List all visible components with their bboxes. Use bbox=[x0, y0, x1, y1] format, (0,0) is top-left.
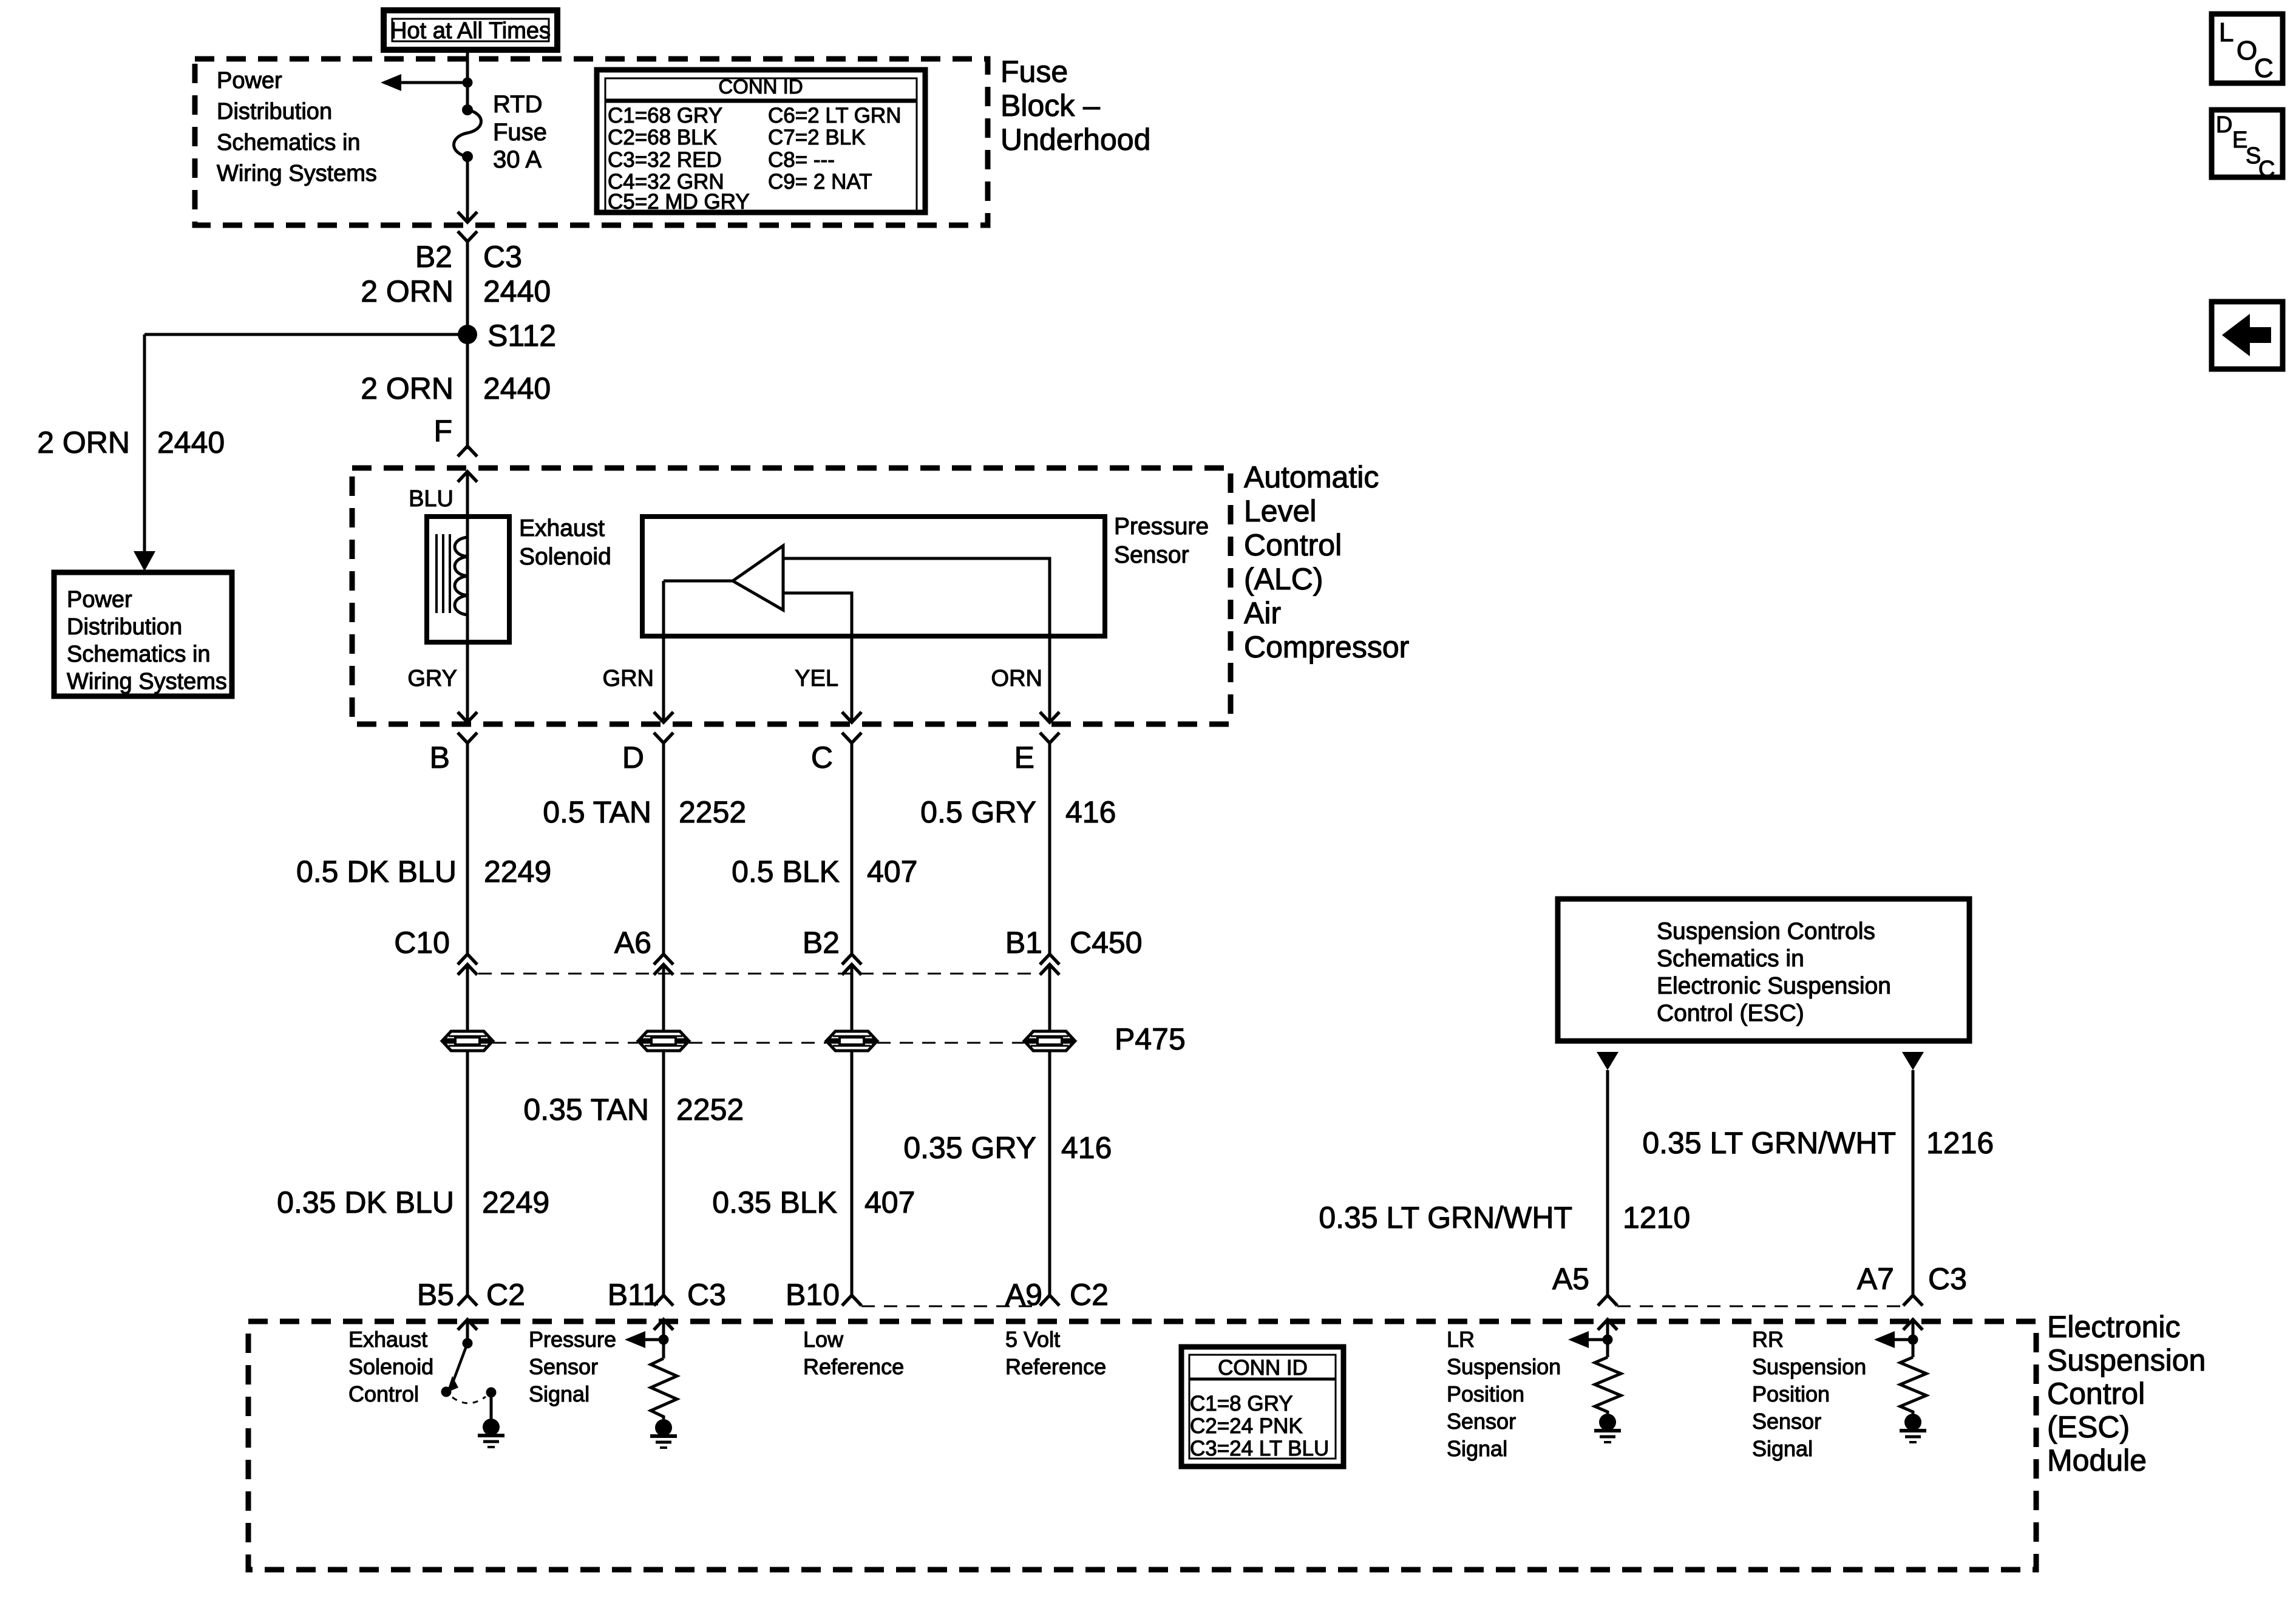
svg-text:ORN: ORN bbox=[991, 666, 1042, 691]
svg-text:Suspension Controls: Suspension Controls bbox=[1657, 918, 1875, 944]
svg-text:C6=2 LT GRN: C6=2 LT GRN bbox=[768, 104, 902, 127]
svg-text:C: C bbox=[811, 741, 833, 775]
svg-text:B11: B11 bbox=[608, 1278, 659, 1312]
svg-text:0.5 TAN: 0.5 TAN bbox=[543, 795, 651, 829]
svg-text:C3: C3 bbox=[1928, 1262, 1967, 1296]
svg-text:C2=24 PNK: C2=24 PNK bbox=[1190, 1414, 1303, 1438]
svg-text:A5: A5 bbox=[1552, 1262, 1589, 1296]
svg-text:(ESC): (ESC) bbox=[2047, 1410, 2130, 1444]
svg-text:Schematics in: Schematics in bbox=[67, 642, 211, 667]
svg-text:Sensor: Sensor bbox=[1114, 542, 1189, 568]
svg-text:0.5 GRY: 0.5 GRY bbox=[920, 795, 1036, 829]
svg-text:B: B bbox=[430, 741, 450, 775]
svg-text:407: 407 bbox=[864, 1185, 915, 1219]
svg-text:0.35 LT GRN/WHT: 0.35 LT GRN/WHT bbox=[1642, 1126, 1896, 1160]
svg-text:1210: 1210 bbox=[1623, 1201, 1690, 1235]
svg-text:2249: 2249 bbox=[482, 1185, 549, 1219]
svg-text:Suspension: Suspension bbox=[1752, 1354, 1866, 1379]
svg-text:RTD: RTD bbox=[493, 91, 542, 118]
svg-text:Fuse: Fuse bbox=[493, 119, 547, 146]
svg-text:(ALC): (ALC) bbox=[1244, 562, 1323, 596]
svg-text:Wiring Systems: Wiring Systems bbox=[67, 669, 227, 694]
svg-text:BLU: BLU bbox=[409, 486, 453, 512]
svg-text:GRN: GRN bbox=[603, 666, 654, 691]
svg-text:B1: B1 bbox=[1005, 926, 1042, 960]
svg-text:30 A: 30 A bbox=[493, 146, 542, 173]
svg-text:Electronic Suspension: Electronic Suspension bbox=[1657, 973, 1891, 999]
svg-text:2 ORN: 2 ORN bbox=[361, 371, 453, 405]
svg-text:D: D bbox=[622, 741, 644, 775]
svg-text:Module: Module bbox=[2047, 1443, 2147, 1477]
svg-text:2252: 2252 bbox=[676, 1093, 744, 1127]
svg-text:Electronic: Electronic bbox=[2047, 1310, 2181, 1344]
svg-text:Control: Control bbox=[2047, 1377, 2145, 1411]
svg-text:Power: Power bbox=[217, 68, 282, 93]
svg-text:0.5 BLK: 0.5 BLK bbox=[732, 855, 840, 889]
svg-text:A7: A7 bbox=[1857, 1262, 1894, 1296]
svg-text:Control: Control bbox=[1244, 528, 1342, 562]
svg-text:0.35 BLK: 0.35 BLK bbox=[712, 1185, 837, 1219]
svg-text:C3: C3 bbox=[483, 240, 522, 274]
svg-text:Hot at All Times: Hot at All Times bbox=[390, 18, 551, 44]
svg-text:0.35 GRY: 0.35 GRY bbox=[903, 1131, 1036, 1165]
svg-text:P475: P475 bbox=[1115, 1022, 1186, 1056]
svg-text:L: L bbox=[2219, 18, 2233, 47]
svg-text:C2: C2 bbox=[486, 1278, 525, 1312]
svg-text:Sensor: Sensor bbox=[1752, 1409, 1821, 1434]
svg-text:Position: Position bbox=[1752, 1381, 1830, 1406]
svg-text:Control (ESC): Control (ESC) bbox=[1657, 1000, 1804, 1026]
svg-text:C3=32 RED: C3=32 RED bbox=[608, 148, 722, 172]
svg-text:Reference: Reference bbox=[803, 1354, 904, 1379]
svg-text:C450: C450 bbox=[1070, 926, 1143, 960]
svg-text:C: C bbox=[2254, 53, 2274, 83]
svg-text:Pressure: Pressure bbox=[529, 1327, 616, 1352]
svg-text:5 Volt: 5 Volt bbox=[1005, 1327, 1060, 1352]
svg-text:0.5 DK BLU: 0.5 DK BLU bbox=[296, 855, 457, 889]
svg-text:Distribution: Distribution bbox=[217, 99, 332, 124]
svg-text:Solenoid: Solenoid bbox=[348, 1354, 433, 1379]
svg-text:Sensor: Sensor bbox=[1447, 1409, 1516, 1434]
svg-text:C5=2 MD GRY: C5=2 MD GRY bbox=[608, 190, 750, 214]
svg-text:C10: C10 bbox=[394, 926, 450, 960]
svg-text:2 ORN: 2 ORN bbox=[361, 274, 453, 308]
svg-text:Pressure: Pressure bbox=[1114, 514, 1209, 540]
svg-text:Wiring Systems: Wiring Systems bbox=[217, 161, 377, 186]
svg-text:B2: B2 bbox=[803, 926, 840, 960]
svg-text:RR: RR bbox=[1752, 1327, 1784, 1352]
svg-text:0.35 LT GRN/WHT: 0.35 LT GRN/WHT bbox=[1319, 1201, 1572, 1235]
svg-text:LR: LR bbox=[1447, 1327, 1475, 1352]
svg-text:Level: Level bbox=[1244, 494, 1317, 528]
svg-text:B2: B2 bbox=[415, 240, 452, 274]
svg-text:CONN ID: CONN ID bbox=[718, 75, 803, 98]
svg-text:C1=68 GRY: C1=68 GRY bbox=[608, 104, 722, 127]
svg-text:CONN ID: CONN ID bbox=[1218, 1356, 1308, 1380]
svg-text:C8= ---: C8= --- bbox=[768, 148, 835, 172]
svg-text:Position: Position bbox=[1447, 1381, 1524, 1406]
svg-text:Schematics in: Schematics in bbox=[217, 130, 361, 155]
svg-text:Exhaust: Exhaust bbox=[348, 1327, 427, 1352]
svg-text:B5: B5 bbox=[417, 1278, 454, 1312]
svg-text:Control: Control bbox=[348, 1381, 419, 1406]
svg-text:Signal: Signal bbox=[1752, 1436, 1813, 1461]
svg-text:C: C bbox=[2258, 157, 2275, 182]
svg-text:B10: B10 bbox=[786, 1278, 840, 1312]
svg-text:416: 416 bbox=[1061, 1131, 1112, 1165]
svg-text:0.35 TAN: 0.35 TAN bbox=[523, 1093, 649, 1127]
svg-text:416: 416 bbox=[1065, 795, 1116, 829]
svg-text:Sensor: Sensor bbox=[529, 1354, 598, 1379]
svg-text:YEL: YEL bbox=[795, 666, 838, 691]
svg-text:Suspension: Suspension bbox=[1447, 1354, 1561, 1379]
svg-text:Fuse: Fuse bbox=[1000, 55, 1068, 89]
svg-text:Distribution: Distribution bbox=[67, 614, 182, 640]
svg-text:2 ORN: 2 ORN bbox=[37, 425, 130, 459]
svg-text:Air: Air bbox=[1244, 596, 1281, 630]
svg-text:Block –: Block – bbox=[1000, 89, 1100, 123]
svg-text:C2: C2 bbox=[1070, 1278, 1109, 1312]
svg-text:Reference: Reference bbox=[1005, 1354, 1106, 1379]
svg-text:Compressor: Compressor bbox=[1244, 630, 1409, 664]
svg-text:GRY: GRY bbox=[407, 666, 457, 691]
svg-text:Automatic: Automatic bbox=[1244, 460, 1379, 494]
svg-text:2440: 2440 bbox=[157, 425, 225, 459]
svg-text:2440: 2440 bbox=[483, 274, 551, 308]
svg-text:C3: C3 bbox=[687, 1278, 726, 1312]
svg-text:A6: A6 bbox=[614, 926, 651, 960]
svg-text:407: 407 bbox=[867, 855, 917, 889]
svg-text:Solenoid: Solenoid bbox=[519, 544, 611, 570]
svg-text:Low: Low bbox=[803, 1327, 844, 1352]
svg-text:Signal: Signal bbox=[529, 1381, 589, 1406]
svg-text:Suspension: Suspension bbox=[2047, 1343, 2206, 1377]
svg-text:C7=2 BLK: C7=2 BLK bbox=[768, 126, 866, 149]
svg-text:D: D bbox=[2216, 112, 2232, 138]
svg-text:C1=8 GRY: C1=8 GRY bbox=[1190, 1392, 1293, 1415]
svg-text:S112: S112 bbox=[487, 319, 556, 353]
svg-text:C2=68 BLK: C2=68 BLK bbox=[608, 126, 717, 149]
svg-text:2252: 2252 bbox=[679, 795, 746, 829]
svg-text:Exhaust: Exhaust bbox=[519, 515, 605, 541]
svg-text:C9= 2 NAT: C9= 2 NAT bbox=[768, 170, 872, 194]
svg-text:1216: 1216 bbox=[1926, 1126, 1994, 1160]
svg-text:F: F bbox=[433, 414, 452, 448]
svg-text:Schematics in: Schematics in bbox=[1657, 946, 1804, 972]
svg-text:2249: 2249 bbox=[484, 855, 551, 889]
svg-text:Power: Power bbox=[67, 587, 132, 612]
svg-text:C3=24 LT BLU: C3=24 LT BLU bbox=[1190, 1437, 1329, 1460]
svg-text:E: E bbox=[1014, 741, 1034, 775]
svg-text:0.35 DK BLU: 0.35 DK BLU bbox=[277, 1185, 454, 1219]
svg-text:Underhood: Underhood bbox=[1000, 123, 1150, 157]
svg-text:2440: 2440 bbox=[483, 371, 551, 405]
svg-text:Signal: Signal bbox=[1447, 1436, 1507, 1461]
